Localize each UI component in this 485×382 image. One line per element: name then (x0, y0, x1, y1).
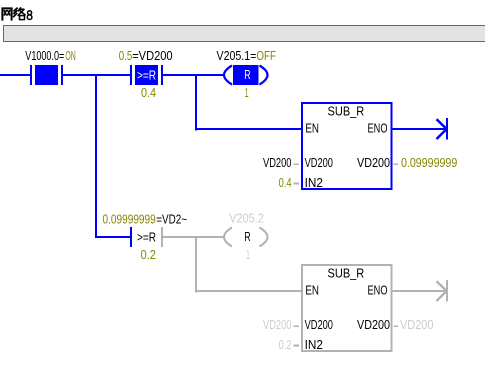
svg-text:SUB_R: SUB_R (328, 104, 365, 119)
svg-text:ON: ON (65, 50, 75, 64)
svg-text:IN2: IN2 (305, 175, 323, 190)
svg-text:V1000.0=: V1000.0= (25, 50, 64, 64)
svg-text:0.2: 0.2 (279, 339, 292, 353)
svg-text:V205.1=: V205.1= (217, 48, 257, 63)
svg-text:EN: EN (305, 284, 319, 298)
svg-text:=VD200: =VD200 (132, 48, 173, 63)
svg-text:0.09999999: 0.09999999 (401, 155, 458, 170)
svg-text:>=R: >=R (137, 68, 156, 83)
svg-text:0.2: 0.2 (141, 247, 157, 262)
svg-text:=VD2~: =VD2~ (156, 213, 187, 227)
svg-text:OFF: OFF (256, 50, 276, 64)
svg-text:VD200: VD200 (400, 317, 434, 332)
svg-text:VD200: VD200 (357, 317, 390, 332)
svg-text:EN: EN (305, 122, 319, 136)
svg-text:VD200: VD200 (357, 155, 390, 170)
svg-text:0.09999999: 0.09999999 (103, 212, 156, 227)
svg-text:0.5: 0.5 (119, 50, 132, 64)
svg-text:SUB_R: SUB_R (328, 266, 365, 281)
svg-text:V205.2: V205.2 (229, 210, 264, 225)
svg-text:IN2: IN2 (305, 337, 323, 352)
svg-text:VD200: VD200 (263, 157, 291, 171)
svg-text:VD200: VD200 (305, 157, 333, 171)
svg-text:0.4: 0.4 (279, 177, 292, 191)
svg-text:>=R: >=R (137, 230, 156, 245)
svg-text:R: R (244, 69, 250, 83)
svg-text:VD200: VD200 (263, 319, 291, 333)
svg-text:ENO: ENO (368, 122, 388, 136)
svg-text:1: 1 (246, 248, 250, 263)
svg-text:ENO: ENO (368, 284, 388, 298)
svg-text:VD200: VD200 (305, 319, 333, 333)
svg-text:1: 1 (245, 86, 249, 101)
svg-text:0.4: 0.4 (141, 85, 156, 100)
svg-text:R: R (244, 231, 250, 245)
